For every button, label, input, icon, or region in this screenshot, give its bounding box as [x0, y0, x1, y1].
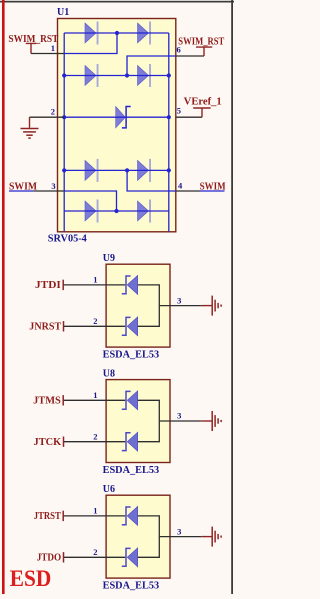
svg-text:4: 4: [178, 180, 183, 190]
pin 1 wire (U9): [63, 284, 125, 286]
junction node row2 midpoint: [125, 73, 129, 77]
junction row2 right rail: [167, 73, 171, 77]
svg-text:JTDI: JTDI: [35, 280, 61, 291]
pin 1 wire: [31, 53, 64, 55]
diode U1 row2 left: [85, 66, 96, 86]
ESD array U8 body: [106, 380, 170, 463]
svg-text:U9: U9: [103, 253, 115, 264]
diode U1 row5 right: [138, 201, 149, 221]
svg-text:SWIM: SWIM: [200, 182, 226, 193]
svg-text:2: 2: [93, 547, 97, 557]
net stub SWIM_RST left: [26, 43, 37, 53]
net stub SWIM right (blue): [200, 190, 225, 192]
junction pin5 on right rail: [167, 115, 171, 119]
wire: U6 diode commons to pin 3: [138, 516, 202, 557]
junction node row4 midpoint: [125, 168, 129, 172]
wire: U8 diode commons to pin 3: [138, 400, 202, 441]
svg-text:6: 6: [177, 45, 181, 55]
zener diode U1 center: [116, 107, 126, 128]
ground at U9 pin 3: [201, 305, 211, 307]
diode U1 row1 right: [138, 23, 149, 43]
TVS array U1 body: [58, 19, 176, 232]
pin 2 wire (U9): [63, 325, 125, 327]
wire: U1 left rail (GND rail): [63, 33, 65, 232]
wire: U1 middle row (zener): [64, 116, 169, 118]
pin 1 wire (U6): [63, 515, 125, 517]
diode U9 top: [122, 276, 131, 294]
net stub JTDI tick: [62, 280, 64, 290]
svg-text:JTDO: JTDO: [37, 553, 62, 564]
pin 2 wire: [30, 116, 65, 118]
junction row4 left rail: [62, 168, 66, 172]
svg-text:3: 3: [177, 295, 181, 305]
net stub JTMS tick: [62, 395, 64, 405]
wire: U1 diode row1 horizontal: [64, 32, 169, 34]
diode U8 top: [122, 391, 131, 409]
wire: U1 diode row2 horizontal: [64, 75, 169, 77]
wire: U1 diode row5 horizontal: [64, 210, 169, 212]
svg-text:ESDA_EL53: ESDA_EL53: [103, 350, 160, 361]
svg-text:ESDA_EL53: ESDA_EL53: [103, 465, 160, 476]
net stub SWIM_RST right: [196, 47, 212, 56]
pin 4 wire: [176, 190, 200, 192]
wire: pin3 to row5 midpoint: [64, 191, 116, 211]
svg-text:3: 3: [177, 526, 181, 536]
pin 6 wire: [176, 55, 204, 57]
wire: pin1 to row1 midpoint: [64, 33, 117, 54]
net stub JTRST tick: [62, 511, 64, 521]
svg-text:ESDA_EL53: ESDA_EL53: [103, 581, 160, 592]
net stub SWIM left (blue): [9, 190, 33, 192]
svg-text:1: 1: [93, 506, 97, 516]
diode U1 row4 right: [138, 160, 149, 180]
svg-text:JNRST: JNRST: [29, 322, 61, 333]
diode U1 row1 left: [85, 23, 96, 43]
junction row2 left rail: [62, 73, 66, 77]
svg-text:U6: U6: [103, 484, 115, 495]
pin 5 wire: [176, 116, 202, 118]
wire: U1 right rail (VCC rail): [168, 33, 170, 232]
junction node row5 midpoint: [114, 209, 118, 213]
pin 2 wire (U6): [63, 556, 125, 558]
svg-text:JTRST: JTRST: [34, 511, 61, 522]
diode U1 row2 right: [138, 66, 149, 86]
pin 1 wire (U8): [63, 399, 125, 401]
svg-text:U1: U1: [57, 7, 69, 18]
net stub JTDO tick: [63, 552, 65, 562]
sheet top border line: [0, 1, 234, 3]
sheet left red margin bar: [2, 0, 5, 594]
pin 2 wire (U8): [63, 441, 125, 443]
ground at U8 pin 3: [201, 420, 211, 422]
wire: pin6 to row2 midpoint: [127, 56, 176, 76]
svg-text:VEref_1: VEref_1: [184, 97, 222, 108]
junction pin2 on left rail: [62, 115, 66, 119]
ESD array U9 body: [106, 264, 170, 347]
svg-text:2: 2: [93, 316, 97, 326]
junction node row1 midpoint: [115, 31, 119, 35]
net stub VEref_1: [193, 108, 210, 117]
diode U8 bottom: [122, 433, 131, 451]
wire: U9 diode commons to pin 3: [138, 285, 202, 326]
ground at U1 pin 2: [29, 117, 31, 128]
diode U9 bottom: [122, 317, 131, 335]
wire: pin4 to row4 midpoint: [127, 170, 176, 191]
svg-text:3: 3: [177, 411, 181, 421]
svg-text:SRV05-4: SRV05-4: [48, 234, 87, 245]
ground at U6 pin 3: [201, 536, 211, 538]
svg-text:ESD: ESD: [10, 566, 52, 591]
pin 3 wire: [33, 190, 64, 192]
svg-text:2: 2: [93, 431, 97, 441]
ESD array U6 body: [106, 495, 170, 578]
svg-text:5: 5: [177, 106, 181, 116]
svg-text:2: 2: [51, 107, 55, 117]
svg-text:1: 1: [51, 43, 55, 53]
wire: U1 diode row4 horizontal: [64, 169, 169, 171]
diode U6 bottom: [122, 548, 131, 566]
junction row4 right rail: [167, 168, 171, 172]
svg-text:SWIM_RST: SWIM_RST: [178, 37, 224, 48]
diode U6 top: [122, 507, 131, 525]
net stub JTCK tick: [63, 437, 65, 447]
svg-text:1: 1: [93, 275, 97, 285]
net stub JNRST tick: [63, 321, 65, 331]
svg-text:1: 1: [93, 390, 97, 400]
svg-text:3: 3: [51, 181, 55, 191]
svg-text:U8: U8: [103, 368, 115, 379]
sheet right border line: [231, 0, 233, 594]
diode U1 row4 left: [85, 160, 96, 180]
svg-text:JTCK: JTCK: [34, 437, 62, 448]
svg-text:JTMS: JTMS: [33, 396, 61, 407]
diode U1 row5 left: [85, 201, 96, 221]
